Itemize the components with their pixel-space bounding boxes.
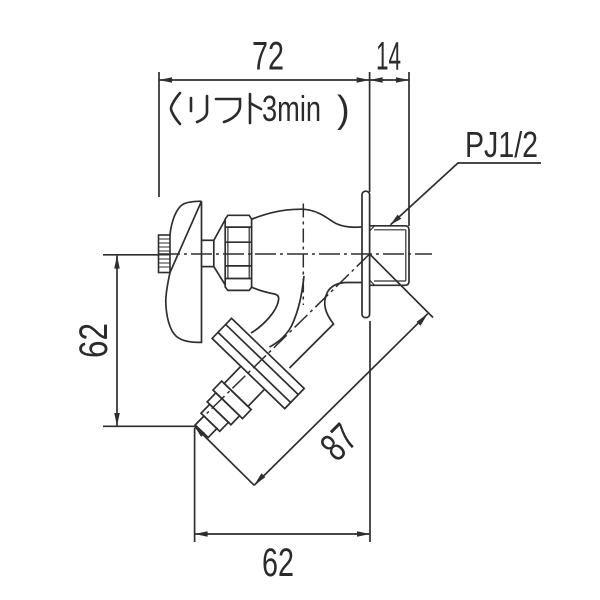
svg-text:): ) xyxy=(337,89,350,131)
svg-text:62: 62 xyxy=(72,323,116,358)
svg-text:3min: 3min xyxy=(262,88,321,129)
svg-text:PJ1/2: PJ1/2 xyxy=(465,124,538,165)
svg-text:87: 87 xyxy=(312,416,366,470)
svg-text:14: 14 xyxy=(376,35,401,79)
svg-text:62: 62 xyxy=(262,541,294,585)
svg-text:72: 72 xyxy=(252,35,284,79)
